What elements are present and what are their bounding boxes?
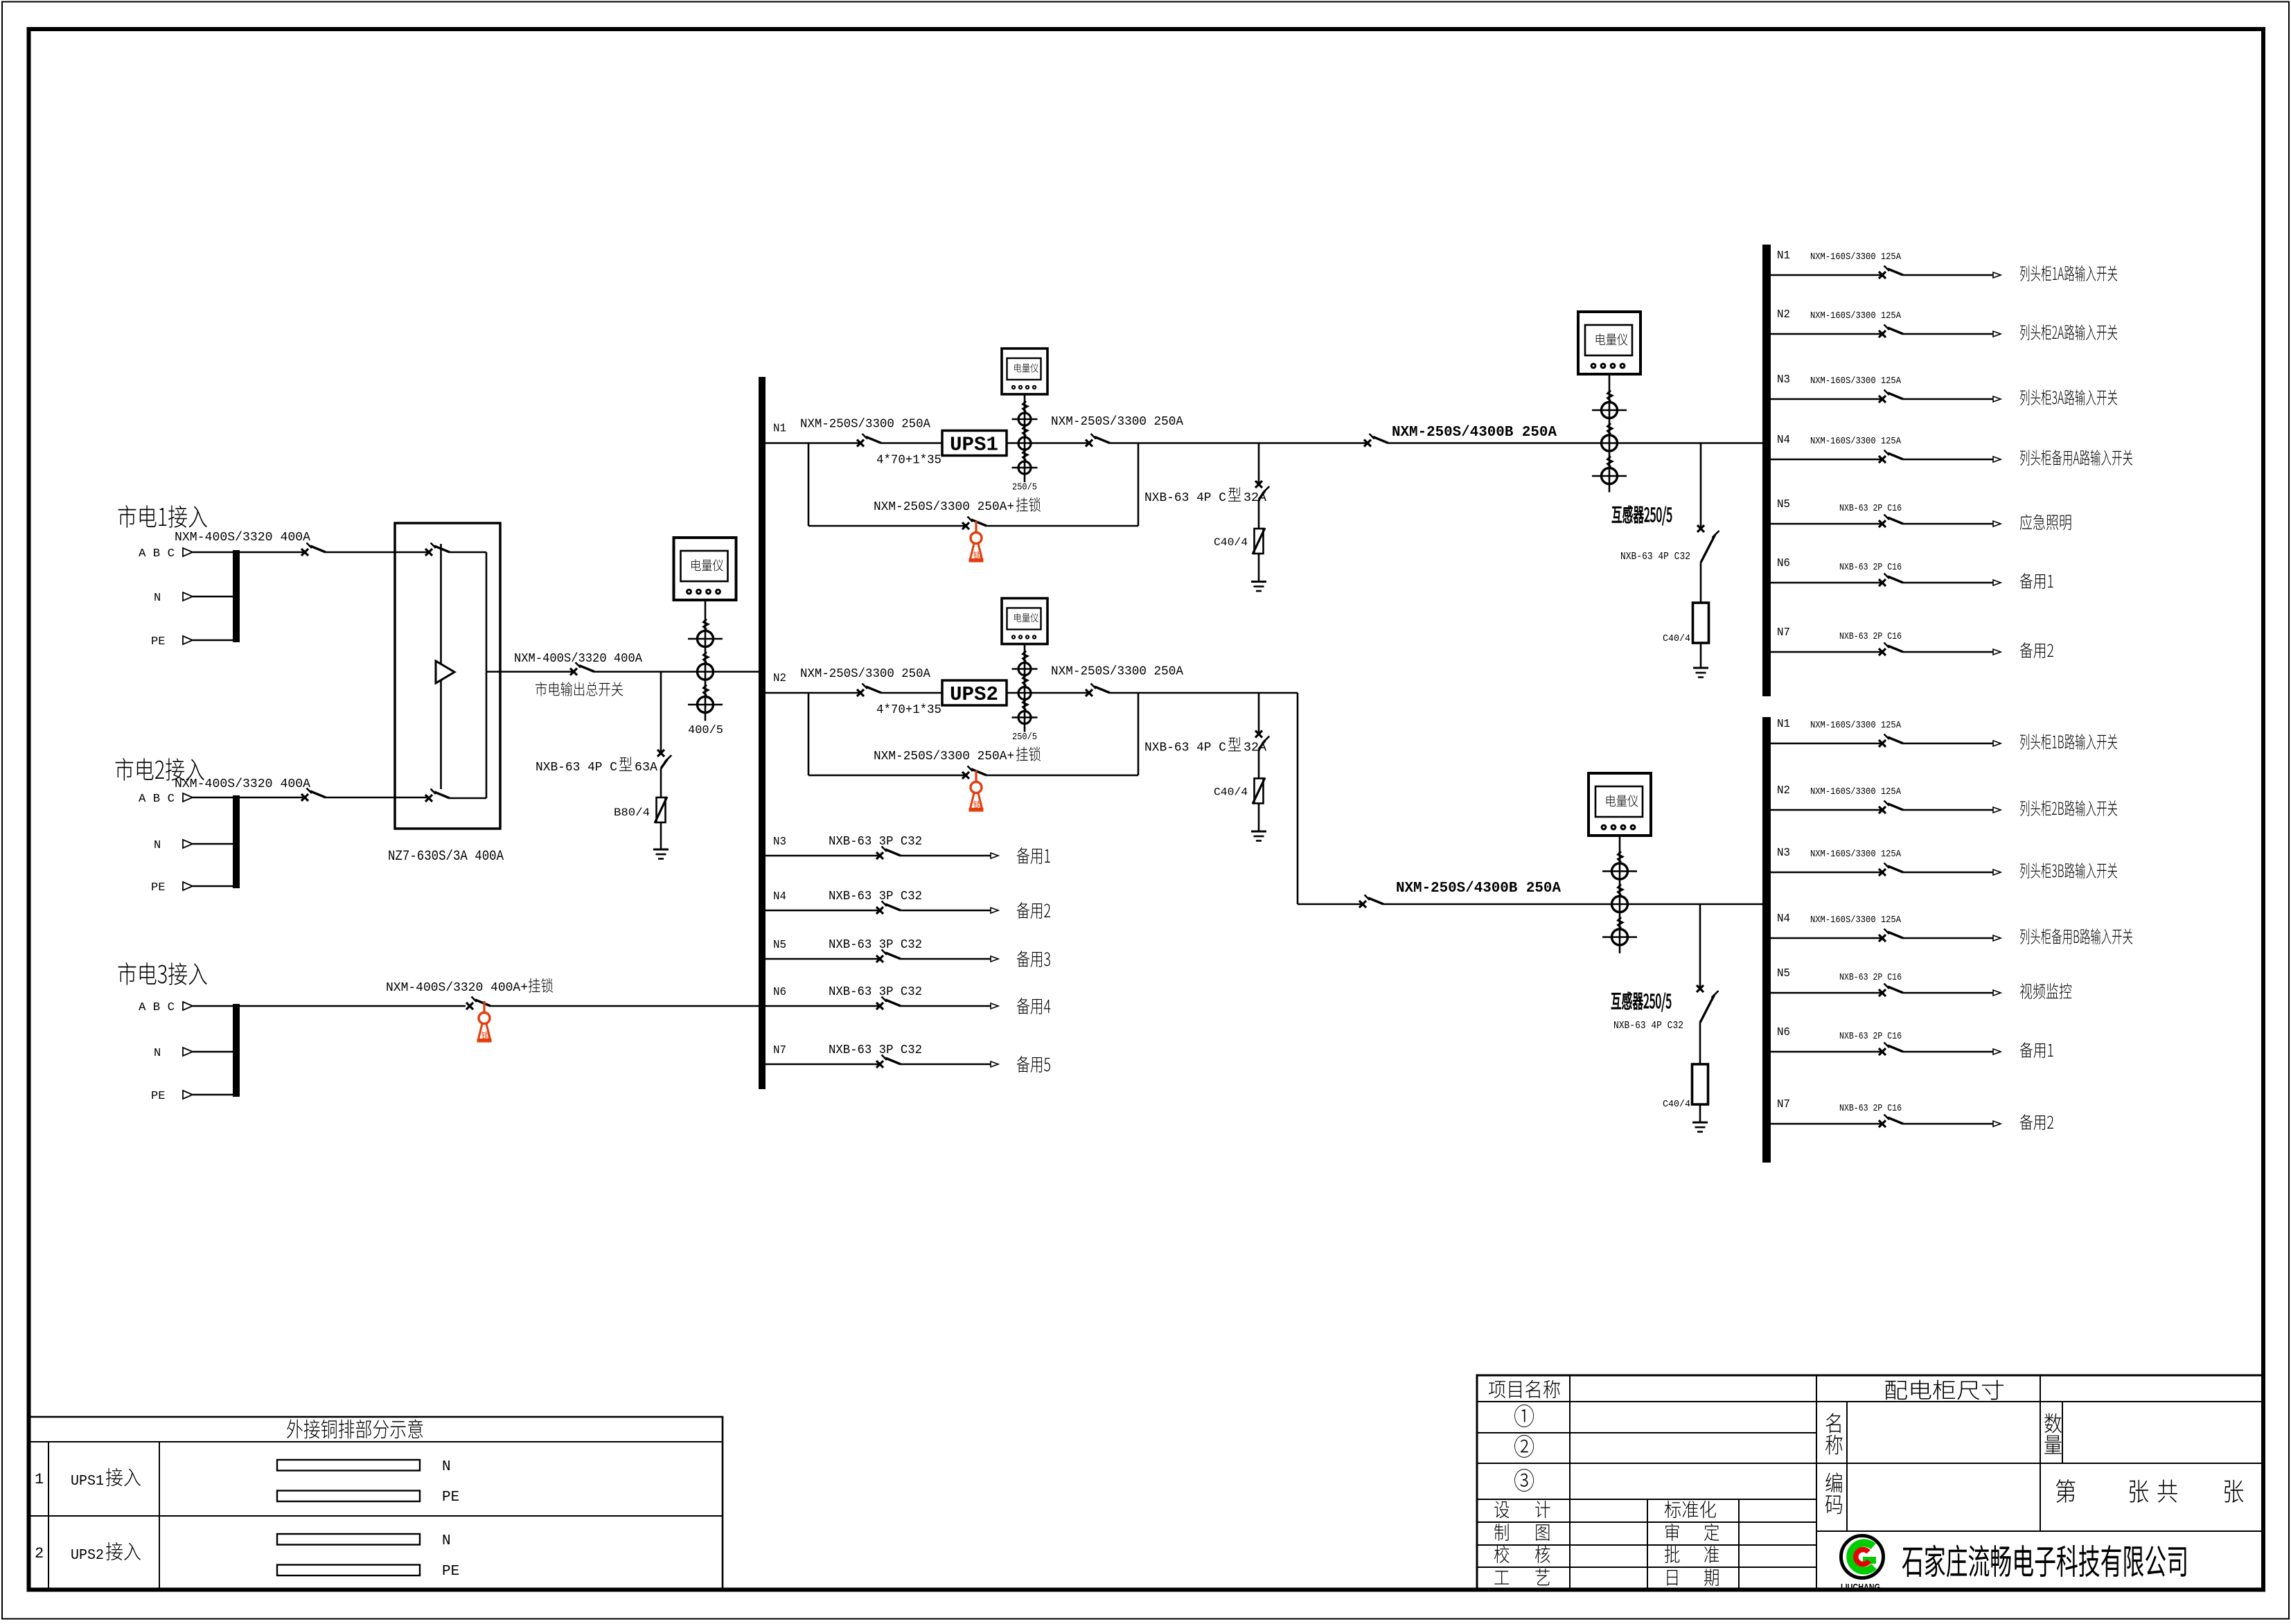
svg-text:N: N	[154, 592, 161, 605]
svg-text:NXM-250S/3300 250A: NXM-250S/3300 250A	[800, 667, 930, 681]
svg-text:NXM-250S/3300 250A: NXM-250S/3300 250A	[1051, 665, 1183, 679]
svg-text:32A: 32A	[1244, 491, 1266, 505]
svg-text:250/5: 250/5	[1012, 732, 1037, 743]
svg-text:1: 1	[35, 1471, 44, 1488]
svg-text:63A: 63A	[635, 761, 657, 775]
svg-text:UPS2: UPS2	[950, 683, 998, 706]
svg-text:N1: N1	[1777, 718, 1790, 731]
svg-text:N3: N3	[773, 836, 786, 849]
svg-text:NXB-63 4P C32: NXB-63 4P C32	[1613, 1020, 1683, 1032]
svg-text:N5: N5	[773, 939, 786, 952]
svg-text:2: 2	[35, 1545, 44, 1562]
svg-text:NXM-250S/3300 250A+: NXM-250S/3300 250A+	[874, 500, 1014, 514]
svg-text:NXB-63 2P C16: NXB-63 2P C16	[1839, 972, 1902, 983]
svg-text:NXM-400S/3320 400A+: NXM-400S/3320 400A+	[386, 981, 528, 995]
svg-text:NXM-160S/3300 125A: NXM-160S/3300 125A	[1810, 849, 1902, 860]
svg-text:NXB-63 4P C: NXB-63 4P C	[1144, 491, 1226, 505]
svg-text:NXM-160S/3300 125A: NXM-160S/3300 125A	[1810, 251, 1902, 263]
svg-text:PE: PE	[442, 1490, 459, 1506]
svg-text:NXB-63 2P C16: NXB-63 2P C16	[1839, 562, 1902, 573]
svg-text:UPS1: UPS1	[71, 1474, 104, 1490]
svg-text:PE: PE	[151, 881, 165, 894]
svg-text:NXM-250S/3300 250A: NXM-250S/3300 250A	[800, 418, 930, 432]
svg-text:A B C: A B C	[139, 1001, 175, 1014]
svg-text:NXM-160S/3300 125A: NXM-160S/3300 125A	[1810, 915, 1902, 926]
svg-text:N4: N4	[1777, 912, 1790, 926]
svg-text:UPS2: UPS2	[71, 1548, 104, 1564]
svg-text:B80/4: B80/4	[614, 806, 650, 819]
svg-text:N2: N2	[1777, 784, 1790, 797]
svg-text:NZ7-630S/3A 400A: NZ7-630S/3A 400A	[388, 849, 504, 865]
svg-text:NXB-63 3P C32: NXB-63 3P C32	[829, 890, 922, 903]
svg-text:4*70+1*35: 4*70+1*35	[876, 703, 941, 717]
svg-text:NXM-160S/3300 125A: NXM-160S/3300 125A	[1810, 720, 1902, 731]
svg-text:C40/4: C40/4	[1214, 786, 1248, 799]
svg-text:32A: 32A	[1244, 741, 1266, 755]
svg-text:N5: N5	[1777, 967, 1790, 980]
svg-text:N: N	[442, 1533, 451, 1549]
svg-text:N4: N4	[1777, 434, 1790, 447]
svg-text:400/5: 400/5	[688, 724, 723, 737]
svg-text:NXB-63 2P C16: NXB-63 2P C16	[1839, 631, 1902, 642]
svg-text:N3: N3	[1777, 847, 1790, 860]
svg-text:N1: N1	[773, 423, 786, 436]
svg-text:PE: PE	[151, 1090, 165, 1103]
svg-text:N4: N4	[773, 890, 786, 903]
svg-text:NXM-400S/3320 400A: NXM-400S/3320 400A	[175, 777, 310, 791]
svg-text:C40/4: C40/4	[1663, 1099, 1690, 1110]
svg-text:NXM-400S/3320 400A: NXM-400S/3320 400A	[514, 652, 642, 666]
svg-text:NXM-160S/3300 125A: NXM-160S/3300 125A	[1810, 376, 1902, 387]
svg-text:C40/4: C40/4	[1214, 536, 1248, 549]
svg-text:LIUCHANG: LIUCHANG	[1841, 1582, 1880, 1592]
svg-text:C40/4: C40/4	[1663, 633, 1690, 644]
svg-text:NXB-63 4P C: NXB-63 4P C	[1144, 741, 1226, 755]
svg-text:NXB-63 2P C16: NXB-63 2P C16	[1839, 1031, 1902, 1042]
svg-text:NXB-63 3P C32: NXB-63 3P C32	[829, 1043, 922, 1057]
svg-text:NXM-160S/3300 125A: NXM-160S/3300 125A	[1810, 786, 1902, 797]
svg-text:A B C: A B C	[139, 793, 175, 806]
svg-text:NXB-63 2P C16: NXB-63 2P C16	[1839, 1103, 1902, 1114]
svg-text:NXB-63 3P C32: NXB-63 3P C32	[829, 985, 922, 999]
svg-text:NXB-63 2P C16: NXB-63 2P C16	[1839, 503, 1902, 514]
svg-text:N1: N1	[1777, 249, 1790, 263]
svg-text:N6: N6	[1777, 1026, 1790, 1039]
svg-text:NXM-160S/3300 125A: NXM-160S/3300 125A	[1810, 310, 1902, 321]
svg-text:N7: N7	[773, 1044, 786, 1057]
svg-text:N2: N2	[1777, 308, 1790, 321]
svg-text:UPS1: UPS1	[950, 434, 998, 457]
svg-text:250/5: 250/5	[1012, 482, 1037, 493]
svg-text:NXM-160S/3300 125A: NXM-160S/3300 125A	[1810, 436, 1902, 447]
svg-text:NXM-250S/3300 250A: NXM-250S/3300 250A	[1051, 415, 1183, 429]
svg-text:NXM-250S/4300B 250A: NXM-250S/4300B 250A	[1396, 881, 1561, 897]
svg-text:N6: N6	[1777, 557, 1790, 570]
svg-text:N: N	[154, 1047, 161, 1060]
svg-text:NXB-63 3P C32: NXB-63 3P C32	[829, 938, 922, 952]
svg-text:N6: N6	[773, 986, 786, 999]
svg-text:N: N	[154, 839, 161, 852]
svg-text:NXB-63 4P C32: NXB-63 4P C32	[1620, 551, 1690, 563]
svg-text:N5: N5	[1777, 498, 1790, 511]
svg-text:NXB-63 3P C32: NXB-63 3P C32	[829, 835, 922, 849]
svg-text:N2: N2	[773, 672, 786, 685]
svg-text:PE: PE	[442, 1564, 459, 1580]
svg-text:N: N	[442, 1459, 451, 1475]
svg-text:N7: N7	[1777, 1098, 1790, 1111]
svg-text:NXM-250S/3300 250A+: NXM-250S/3300 250A+	[874, 750, 1014, 764]
svg-text:NXM-250S/4300B 250A: NXM-250S/4300B 250A	[1392, 425, 1557, 441]
svg-text:N3: N3	[1777, 373, 1790, 387]
svg-text:4*70+1*35: 4*70+1*35	[876, 454, 941, 468]
svg-text:A B C: A B C	[139, 547, 175, 561]
svg-text:N7: N7	[1777, 626, 1790, 639]
svg-text:PE: PE	[151, 635, 165, 648]
svg-text:NXB-63 4P C: NXB-63 4P C	[536, 761, 617, 775]
svg-text:NXM-400S/3320 400A: NXM-400S/3320 400A	[175, 531, 310, 545]
